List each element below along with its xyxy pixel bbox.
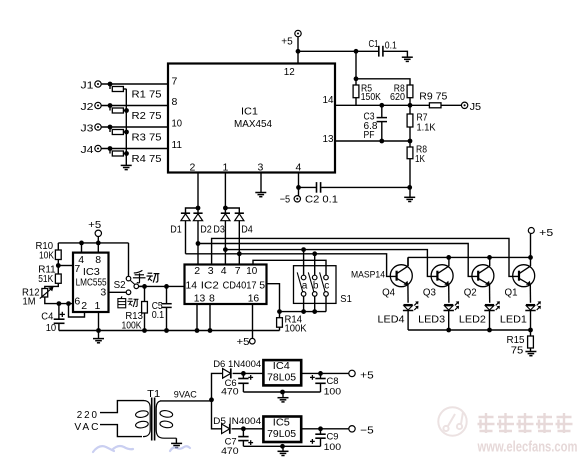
node D1/D2 common [196,206,201,211]
label zi-dong (auto) [121,296,122,298]
timer IC3 LMC555 box [73,253,109,312]
svg-text:T1: T1 [147,388,160,400]
svg-text:150K: 150K [361,91,381,103]
diode D4 [225,208,239,213]
svg-text:1.1K: 1.1K [417,121,436,133]
svg-text:IC4: IC4 [273,361,291,372]
capacitor C1 0.1 [378,46,380,57]
svg-text:1K: 1K [415,153,425,165]
node LED2 rail [487,328,492,333]
watermark blue smudge [93,446,190,452]
svg-text:2: 2 [190,161,196,173]
light-emitting diode LED3 [444,304,453,306]
terminal +5 (IC3) [95,230,101,236]
resistor R13 100K [144,286,146,301]
node S1 b bottom [312,309,317,314]
svg-text:J2: J2 [81,101,94,113]
wire secondary top 9VAC [160,400,212,402]
capacitor C6 470 electrolytic [242,373,244,378]
svg-text:LED2: LED2 [459,313,486,325]
resistor R11 51K [55,274,61,283]
node S1 a tap [301,247,306,252]
capacitor C9 100 electrolytic [320,429,322,434]
svg-text:MAX454: MAX454 [234,118,272,130]
svg-text:J4: J4 [81,144,94,156]
svg-text:+5: +5 [281,36,293,48]
diode D5 1N4004 [222,424,230,434]
svg-text:14: 14 [323,94,334,106]
wire D5 to IC5 [232,428,264,430]
wire ground tap (IC5) [282,446,284,451]
resistor R8 1K [409,141,411,147]
svg-text:R3 75: R3 75 [132,131,162,143]
resistor R10 10K [57,243,59,250]
svg-text:D4: D4 [241,224,253,236]
svg-text:3: 3 [258,161,264,173]
wire 9VAC to D6 [212,373,223,399]
node D3/pin4/feedback [223,247,228,252]
node J1/R1 [108,82,113,87]
svg-text:Q1: Q1 [505,286,518,298]
svg-text:R9 75: R9 75 [419,90,447,102]
node C3 top [379,103,384,108]
svg-text:J3: J3 [81,122,94,134]
node Q1 collector [528,255,533,260]
wire R1-R4 ground bus [125,89,127,165]
svg-text:8: 8 [172,96,178,108]
regulator IC4 78L05 box [263,360,301,385]
connector J5 [461,102,467,108]
terminal +5 (LED driver) [528,228,534,234]
wire +5 terminal to node [297,37,299,52]
svg-text:10: 10 [172,117,183,129]
resistor R15 75 [530,330,532,336]
svg-text:IC1: IC1 [241,106,258,118]
node bus/R3 [124,130,129,135]
svg-text:1M: 1M [23,296,36,308]
wire R12 to pin 6 [45,297,73,304]
capacitor C4 10 electrolytic [58,304,60,320]
node C9 top [318,426,323,431]
svg-text:78L05: 78L05 [267,373,297,384]
svg-text:R4 75: R4 75 [132,153,162,165]
node Q3 collector [446,255,451,260]
node bus/R4 [124,151,129,156]
svg-text:0.1: 0.1 [152,309,165,321]
wire IC1 pin 13 line [335,140,410,142]
transistor Q4 [390,265,412,287]
node -5 rail right [407,185,412,190]
resistor R2 75 [109,106,111,111]
svg-text:Q4: Q4 [382,286,395,298]
ground (IC1 pin 3) [255,192,266,194]
wire D2 anode to IC2 pin 2 [197,221,199,265]
potentiometer R12 1M [42,289,48,298]
wire D3 anode to IC2 pin 4 [224,221,226,265]
wire secondary to ground [175,438,177,443]
wire IC1 pin 2 down [197,173,199,209]
node LED3 rail [446,328,451,333]
wire IC5 output [301,428,349,430]
light-emitting diode LED2 [485,304,494,306]
svg-text:5: 5 [259,280,265,292]
svg-text:14: 14 [186,280,198,292]
svg-text:3: 3 [100,287,106,299]
wire PSU -5 ground rail [243,445,320,447]
svg-text:3: 3 [208,265,214,277]
switch S2 manual contact [126,276,131,281]
node D4/pin7/feedback [237,251,242,256]
wire J4 to IC1 [101,148,168,150]
wire IC3 pin 1 to ground [98,312,100,339]
node J2/R2 [108,103,113,108]
node D3/D4 common [223,206,228,211]
regulator IC5 79L05 box [263,417,301,443]
switch S1 contact c [324,275,329,280]
wire S1 b to Q3-output line [314,254,316,275]
node J3/R3 [108,125,113,130]
wire pin8 drop [97,243,99,253]
svg-text:6: 6 [74,295,80,307]
svg-text:D1: D1 [170,224,182,236]
diode D3 [224,208,226,213]
node R7 top [408,103,413,108]
light-emitting diode LED1 [526,304,535,306]
switch S1 box [294,266,337,304]
wire R5 column top [355,51,357,85]
wire rail to +5 terminal [530,234,532,258]
svg-text:+5: +5 [360,369,374,381]
resistor R8 620 [407,85,413,98]
wire S1 bottom rail [280,311,327,313]
switch S2 auto contact [126,290,131,295]
resistor R4 75 [109,149,111,154]
svg-text:11: 11 [172,139,183,151]
wire IC2 pin 5 to S1 common [267,284,280,312]
wire J3 to IC1 [101,126,168,128]
wire IC2 pin 10 output to S1 c [253,260,326,275]
svg-text:470: 470 [221,387,239,398]
node C5 top [164,284,169,289]
svg-text:J5: J5 [470,101,482,113]
wire IC1 pin 1 down [224,173,226,209]
wire C1 to ground [383,51,407,57]
wire IC3 +5 rail [58,242,128,244]
ground (R15) [525,351,536,353]
node R5/R8 branch [354,76,359,81]
svg-text:75: 75 [511,344,524,356]
wire node to C1 [356,50,378,52]
svg-text:2: 2 [194,265,200,277]
power terminal +5 (top, IC1 pin 12 supply) [295,30,301,36]
svg-text:10: 10 [46,322,57,334]
wire pin 7 [58,265,73,267]
svg-text:c: c [324,281,329,292]
svg-text:D2: D2 [200,224,212,236]
capacitor C5 0.1 [166,286,168,303]
wire IC4 output [301,372,349,374]
wire R11 to R12 [45,283,59,288]
svg-text:D3: D3 [213,224,225,236]
transistor Q3 [431,265,453,287]
svg-text:51K: 51K [38,273,53,285]
node C4 top [57,301,62,306]
ground (transformer secondary) [171,442,182,444]
switch S2 pole [134,284,139,289]
node D2/pin2/feedback [196,241,201,246]
svg-text:100: 100 [324,387,342,398]
svg-text:13: 13 [194,292,206,304]
wire S2 pole to clock line [139,285,145,287]
node pin2 loop [66,301,71,306]
switch S1 contact b [312,275,317,280]
node R13 top [142,284,147,289]
wire +5 to IC3 rail [97,236,99,243]
resistor R1 75 [109,84,111,89]
svg-text:1: 1 [223,161,229,173]
svg-text:1: 1 [95,300,101,312]
node S1 a bottom [301,309,306,314]
svg-text:+5: +5 [88,219,101,231]
svg-text:7: 7 [172,75,178,87]
node C3 bottom [379,139,384,144]
wire +5 collector rail [408,256,531,258]
diode D2 [197,208,199,213]
transistor Q1 [513,265,535,287]
svg-text:16: 16 [248,292,260,304]
svg-text:−5: −5 [280,193,291,205]
svg-text:www.elecfans.com: www.elecfans.com [477,440,578,456]
svg-text:7: 7 [235,265,241,277]
wire Q4 collector [407,257,409,266]
svg-text:IC5: IC5 [273,418,291,429]
node IC2 pin8 gnd [208,328,213,333]
resistor R14 100K [279,312,281,318]
resistor R9 75 [429,103,441,108]
watermark chinese text [478,413,573,433]
wire IC2 pin 7 output to Q4 base [186,254,397,277]
wire IC2 pin 3 output to Q1 base [212,238,519,276]
node S1 b tap [312,251,317,256]
svg-text:+5: +5 [237,336,250,348]
svg-text:LED3: LED3 [418,313,445,325]
wire D1 anode to Q3-output line [185,221,187,254]
ground (IC5) [278,450,289,452]
ground (input bus) [121,164,132,166]
wire primary top [100,401,144,413]
svg-text:4: 4 [221,265,227,277]
svg-text:100K: 100K [122,319,142,331]
wire IC2 pin 2 output to Q2 base [198,244,478,277]
wire branch to R8 620 [356,79,410,85]
transistor Q2 [472,265,494,287]
wire IC1 pin 4 [298,173,300,188]
svg-text:S1: S1 [340,293,352,305]
svg-text:4: 4 [296,161,302,173]
ground (R8 1K) [404,196,415,198]
svg-text:8: 8 [209,292,215,304]
svg-text:R1 75: R1 75 [132,88,162,100]
wire S2 manual contact to +5 rail [128,243,130,276]
wire IC2 pin 8 to ground rail [209,304,211,331]
svg-text:12: 12 [284,66,295,78]
wire PSU +5 ground rail [243,391,320,393]
node J4/R4 [108,146,113,151]
node pin4/-5/C2 [296,185,301,190]
svg-text:+5: +5 [539,227,553,239]
svg-text:VAC: VAC [74,421,100,433]
svg-text:220: 220 [77,409,99,421]
wire IC1 pin 12 [297,51,299,63]
node R5 column top [354,49,359,54]
svg-text:a: a [302,281,308,292]
ground (IC4) [278,397,289,399]
terminal +5 output [349,370,355,376]
svg-text:C4: C4 [41,310,53,322]
wire S1 a to Q2-output line [303,250,305,276]
svg-text:79L05: 79L05 [267,429,297,440]
diode D1 [186,208,199,213]
wire D6 to IC4 [233,372,264,374]
svg-text:100: 100 [324,442,342,453]
node R13 bottom [142,328,147,333]
svg-text:C8: C8 [327,376,339,387]
wire J1 to IC1 [101,83,168,85]
transformer T1 secondary winding [156,401,176,438]
terminal -5 output [349,426,355,432]
svg-text:C2 0.1: C2 0.1 [305,193,338,205]
svg-text:C1: C1 [369,38,379,50]
node R10/R11 (pin 7) [56,263,61,268]
resistor R7 1.1K [409,105,411,114]
svg-text:LED1: LED1 [500,313,527,325]
transformer T1 primary winding [143,401,150,437]
svg-text:Q2: Q2 [464,286,477,298]
wire D4 anode to IC2 pin 7 [238,221,240,265]
node bus/R2 [124,108,129,113]
wire IC2 pin 16 to +5 [252,304,254,339]
node IC2 pin13 gnd [195,328,200,333]
node R7/R8 junction [408,139,413,144]
wire LED common rail [408,329,530,331]
svg-text:S2: S2 [114,279,126,291]
svg-text:2: 2 [81,300,87,312]
wire IC1 pin 14 line [335,104,429,106]
wire IC2 pin 4 output to Q3 base [225,250,437,277]
svg-text:IC2: IC2 [201,280,219,292]
wire IC1 pin 3 to ground [260,173,262,193]
svg-text:10: 10 [246,265,257,277]
resistor R5 150K [353,85,359,98]
wire R9 to J5 [441,104,461,106]
wire ground rail (bottom of IC2/IC3) [59,330,280,332]
wire IC2 pin 14 clock line [139,285,185,287]
node C7 top [241,426,246,431]
node C5 bottom [164,328,169,333]
terminal +5 (IC2 pin 16) [250,338,256,344]
node at +5 rail [296,49,301,54]
ground (C1) [402,56,413,58]
watermark logo circle [438,407,466,435]
wire +5 rail to R5 column [298,50,356,52]
resistor R3 75 [109,127,111,132]
transformer T1 core [151,398,153,441]
svg-text:Q3: Q3 [423,286,436,298]
svg-text:7: 7 [74,263,80,275]
svg-text:470: 470 [221,446,239,457]
svg-text:MASP14: MASP14 [351,270,386,281]
svg-text:10K: 10K [39,249,54,261]
node ground tap (IC4) [280,390,285,395]
op-amp IC1 MAX454 box [168,64,335,173]
svg-text:D5 IN4004: D5 IN4004 [213,416,262,427]
wire 9VAC to D5 [212,400,222,429]
svg-text:13: 13 [323,133,334,145]
svg-text:D6 1N4004: D6 1N4004 [213,359,262,370]
capacitor C2 0.1 [299,186,317,188]
svg-text:R2 75: R2 75 [132,110,162,122]
node C6 top [241,371,246,376]
capacitor C8 100 electrolytic [320,373,322,378]
light-emitting diode LED4 [404,304,413,306]
svg-text:8: 8 [95,254,101,266]
terminal -5 [298,187,300,195]
svg-text:J1: J1 [81,79,94,91]
counter IC2 CD4017 box [185,265,267,305]
wire to ground [409,187,411,197]
node 9VAC [209,397,214,402]
svg-text:9VAC: 9VAC [174,390,197,401]
svg-text:b: b [313,281,319,292]
node R15 top [528,328,533,333]
svg-text:C9: C9 [327,431,339,442]
node Q2 collector [487,255,492,260]
svg-text:CD4017: CD4017 [223,280,257,292]
wire pin 6 to pin 2 loop [69,304,85,317]
node S1 common/R14 [277,309,282,314]
switch S1 contact a [301,275,306,280]
wire IC2 pin 13 to ground rail [196,304,198,331]
svg-text:LED4: LED4 [378,313,405,325]
capacitor C7 470 electrolytic [242,429,244,437]
node IC3 pin 8 [96,241,101,246]
wire J2 to IC1 [101,105,168,107]
svg-text:100K: 100K [285,323,307,335]
label shou-dong (manual) [134,270,143,273]
node C8 top [318,371,323,376]
node pin1/ground rail [96,328,101,333]
node ground tap (IC5) [280,444,285,449]
svg-text:−5: −5 [360,425,374,437]
svg-text:PF: PF [364,129,375,141]
wire ground tap (IC4) [282,392,284,398]
svg-text:0.1: 0.1 [385,39,397,51]
wire primary bottom [100,425,142,437]
wire IC3 pin 3 to S2 auto contact [109,291,127,293]
wire pin4 drop [81,243,83,253]
ground (IC3) [93,338,104,340]
svg-text:620: 620 [390,91,405,103]
node IC3 pin 4 [79,241,84,246]
diode D6 1N4004 [223,369,231,379]
capacitor C3 6.8PF [381,105,383,117]
